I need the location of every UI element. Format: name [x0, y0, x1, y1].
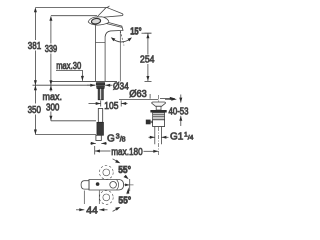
dashed rotated spout lower [99, 191, 113, 205]
dimension max.300 vertical line [49, 85, 52, 121]
horizontal reference line at deck for left dims [33, 84, 96, 86]
threaded shank [98, 89, 103, 100]
dimension 350 vertical line [34, 85, 37, 134]
supply hose upper [98, 109, 102, 123]
deck line [52, 80, 117, 82]
svg-text:Ø63: Ø63 [129, 89, 147, 100]
svg-text:55°: 55° [118, 165, 131, 176]
55° lower leader arrows [113, 187, 130, 211]
waste side knob [146, 120, 151, 125]
waste axis dashed line [158, 95, 160, 157]
mounting nut below deck [96, 83, 105, 86]
dimension 339 vertical line [49, 16, 52, 86]
svg-text:300: 300 [46, 102, 60, 113]
waste neck [156, 106, 161, 110]
dimension G1 1/4 arrows [149, 136, 169, 139]
top view nub junction line [88, 180, 90, 191]
top view end cap inner arc [117, 180, 119, 190]
dimension Ø34 arrows [87, 84, 113, 87]
svg-text:381: 381 [28, 41, 42, 52]
faucet body outline [96, 25, 106, 81]
faucet body joint line [96, 42, 106, 44]
55° upper leader arrows [113, 159, 129, 179]
hose end stub [96, 135, 101, 140]
15° leader line [142, 32, 152, 34]
svg-text:max.: max. [43, 92, 63, 103]
dashed rotated spout upper [99, 166, 113, 180]
waste seal ring [150, 110, 166, 113]
lever handle [98, 8, 123, 18]
top view cartridge circle [110, 182, 117, 189]
top view capsule body [89, 180, 124, 191]
svg-text:55°: 55° [118, 195, 131, 206]
waste flange cap [152, 102, 166, 106]
lever boss ellipse [91, 18, 101, 25]
spout [96, 21, 124, 36]
15 degree tilt dashed line [120, 31, 124, 46]
dimension 339 top extension line [51, 15, 97, 17]
top view screw dot [96, 182, 100, 186]
waste tail pipe [155, 127, 162, 145]
dimension 381 vertical line [34, 7, 37, 85]
head dome [88, 17, 109, 25]
waste upper body [153, 113, 165, 120]
svg-text:15°: 15° [130, 27, 142, 38]
dimension 40-53 [160, 95, 182, 127]
supply hose dark section [97, 122, 104, 135]
extension line at 300 hose end [51, 120, 96, 122]
waste lower body [153, 120, 165, 127]
svg-text:350: 350 [28, 105, 42, 116]
waste body hatch [153, 115, 165, 117]
dimension Ø63 line [119, 94, 176, 101]
top view axis stub [124, 184, 134, 186]
svg-text:254: 254 [140, 55, 155, 66]
max.30 leader line [56, 70, 82, 81]
dimension G 3/8 arrows [90, 142, 106, 145]
dimension 44 [76, 191, 108, 212]
waste knob stem [151, 121, 153, 123]
55° reference tick [129, 179, 131, 191]
spout stream vertical line [119, 31, 121, 81]
svg-text:40-53: 40-53 [169, 106, 189, 117]
svg-text:105: 105 [104, 101, 119, 112]
swivel arc with arrows [111, 37, 132, 42]
dimension max.180 [95, 146, 159, 155]
dimension 381 top extension line [35, 7, 108, 9]
svg-text:339: 339 [45, 44, 58, 55]
extension line at 350 hose end [35, 134, 96, 136]
svg-text:max.180: max.180 [111, 147, 143, 158]
dimension 254 [145, 33, 152, 81]
svg-text:44: 44 [86, 205, 98, 216]
top view spout nub [81, 181, 89, 189]
dimension 105 [89, 101, 128, 107]
spout chamfer line [107, 24, 122, 28]
svg-text:Ø34: Ø34 [113, 82, 129, 93]
